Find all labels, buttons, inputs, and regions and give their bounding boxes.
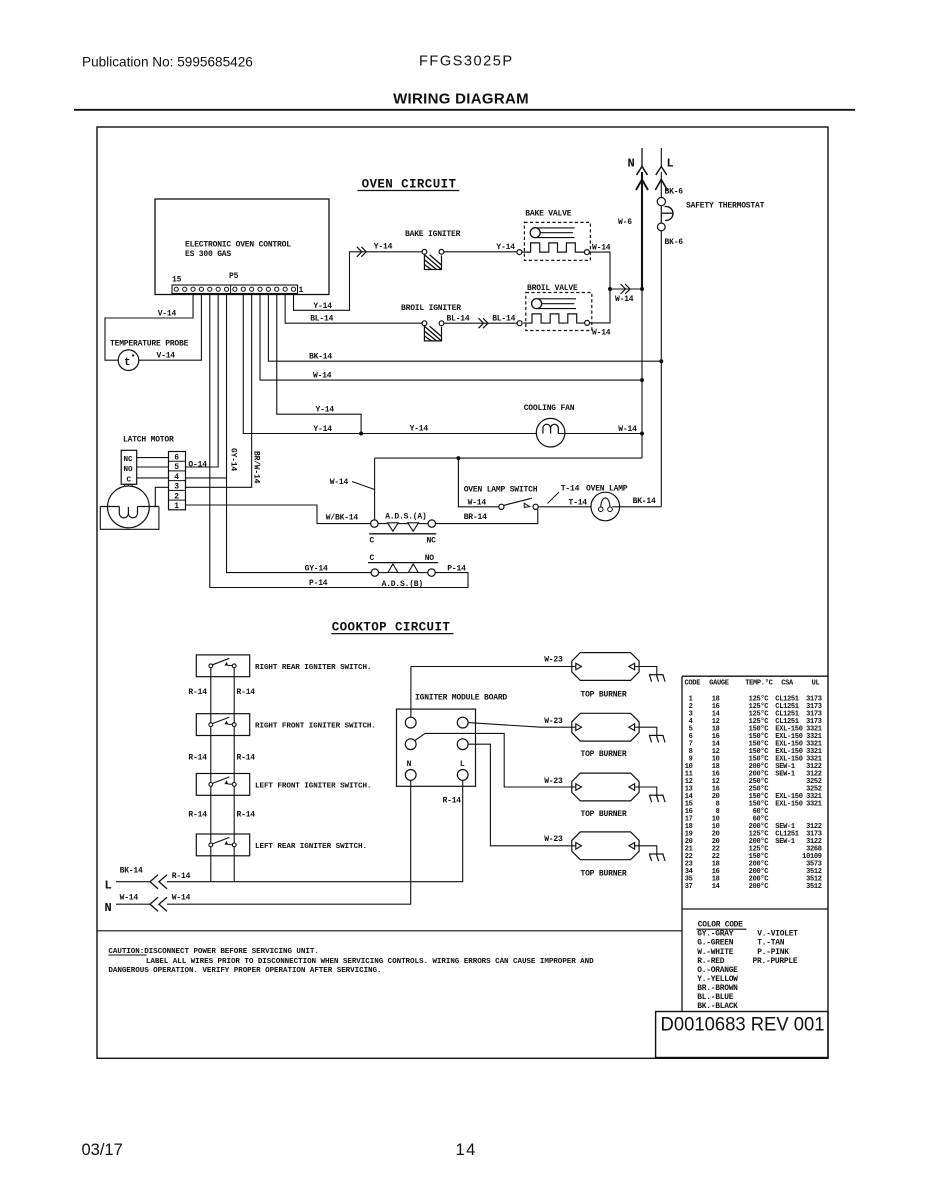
wire R-14 chain left [210,786,212,843]
svg-text:L: L [460,760,465,769]
junction N line fan [640,432,644,436]
svg-text:R-14: R-14 [188,753,207,762]
svg-text:G.-GREEN: G.-GREEN [697,939,733,948]
svg-text:GY-14: GY-14 [305,564,328,573]
svg-text:TEMP.°C: TEMP.°C [745,679,772,688]
svg-text:W-14: W-14 [468,499,487,508]
safety thermostat reset symbol [665,206,673,220]
latch motor stem box [125,484,133,486]
svg-text:BAKE VALVE: BAKE VALVE [525,209,571,218]
switch arm [212,717,229,724]
junction Y-14 [359,432,363,436]
switch pawl link [228,723,233,725]
svg-text:W-14: W-14 [615,295,634,304]
svg-text:W-14: W-14 [592,329,611,338]
junction N line [640,287,644,291]
ADS(B) triangle 1 [388,564,398,572]
switch pawl link [228,664,233,666]
svg-text:FFGS3025P: FFGS3025P [419,54,514,70]
latch motor pin strip [169,452,186,510]
svg-text:GY.-GRAY: GY.-GRAY [697,930,733,939]
connector P5 pin 6 [250,287,254,291]
svg-text:COOLING FAN: COOLING FAN [524,404,575,413]
wire W-14 to N line [610,288,642,290]
broil valve right pin [585,320,590,325]
wire to L supply [233,847,235,882]
switch pawl [225,663,228,665]
switch left contact [209,843,213,847]
svg-text:TOP BURNER: TOP BURNER [580,691,626,700]
pointer T-14 [548,492,560,504]
ADS(A) C contact [371,520,378,527]
switch pawl [225,842,228,844]
wire broil igniter to broil valve [444,322,517,324]
module pin mid-right [457,739,468,750]
wire Y-14 pin7 to cooling fan [243,294,543,434]
wire W-14 supply stub [116,903,150,905]
switch pawl [225,722,228,724]
wire latch pin1 W/BK-14 to ADS(A) [186,505,371,524]
wire to L supply [210,847,212,882]
bake valve left pin [517,250,522,255]
wire R-14 chain left [210,668,212,723]
wire V-14 probe to pin12 [139,294,202,361]
svg-text:COLOR CODE: COLOR CODE [698,921,743,930]
wire V-14 pin13 to temperature probe [105,294,193,361]
wire W-14 module N to supply [167,780,411,904]
junction BK-14 L line [659,359,663,363]
svg-text:ELECTRONIC OVEN CONTROL: ELECTRONIC OVEN CONTROL [185,241,291,250]
wire NO to latch pin5 [137,466,169,468]
svg-text:BL-14: BL-14 [310,315,333,324]
svg-text:R-14: R-14 [237,753,256,762]
broil igniter symbol [422,321,444,341]
revision box [656,1012,828,1058]
svg-text:TOP BURNER: TOP BURNER [580,870,626,879]
svg-text:NC: NC [427,537,437,546]
svg-text:R-14: R-14 [188,810,207,819]
svg-text:LEFT REAR IGNITER SWITCH.: LEFT REAR IGNITER SWITCH. [255,843,367,851]
svg-text:37: 37 [685,883,693,891]
svg-text:BR.-BROWN: BR.-BROWN [697,984,738,993]
electronic oven control box [155,199,329,295]
svg-text:SAFETY THERMOSTAT: SAFETY THERMOSTAT [686,202,765,211]
safety thermostat lower contact [657,223,665,231]
lamp filament foot [608,507,613,512]
connector P5 pin 3 [275,287,279,291]
wire N line W-6 [641,172,643,289]
svg-text:BROIL VALVE: BROIL VALVE [527,284,578,293]
svg-text:T.-TAN: T.-TAN [757,939,784,948]
svg-text:D0010683 REV 001: D0010683 REV 001 [661,1015,825,1036]
svg-text:BROIL IGNITER: BROIL IGNITER [401,304,461,313]
svg-text:P-14: P-14 [447,564,466,573]
svg-text:SEW-1: SEW-1 [775,838,795,846]
wire N line top stub [641,148,643,166]
wire W-14 fan to N line [558,433,642,435]
svg-text:RIGHT FRONT IGNITER SWITCH.: RIGHT FRONT IGNITER SWITCH. [255,723,376,731]
svg-text:t: t [124,357,131,369]
svg-text:BK-14: BK-14 [633,497,656,506]
wire Y-14 pin3 joins Y-14 [277,294,361,434]
svg-text:L: L [105,878,112,892]
ADS(B) wire [379,572,389,574]
svg-text:200°C: 200°C [749,882,769,891]
svg-text:BAKE IGNITER: BAKE IGNITER [405,230,461,239]
ground top burner 4 [639,846,665,861]
svg-text:3512: 3512 [806,883,822,891]
wire module top-left pin riser [410,667,412,718]
svg-text:BK-14: BK-14 [120,867,143,876]
L line break chevron [656,167,667,176]
ADS(A) wire [378,523,387,525]
latch pin divider [169,460,186,462]
module pin L [457,770,468,781]
svg-text:R-14: R-14 [172,872,191,881]
svg-text:C: C [127,476,132,484]
svg-text:P.-PINK: P.-PINK [757,948,789,957]
svg-text:RIGHT REAR IGNITER SWITCH.: RIGHT REAR IGNITER SWITCH. [255,664,371,672]
svg-text:SEW-1: SEW-1 [775,770,795,778]
ADS(A) triangle 2 [408,523,419,531]
latch motor stem [127,484,129,486]
svg-text:03/17: 03/17 [82,1141,123,1159]
broil valve left pin [517,321,522,326]
svg-text:T-14: T-14 [561,485,580,494]
wire bake igniter to bake valve [444,251,517,253]
wire C to latch pin4 [137,477,169,479]
svg-text:W-14: W-14 [313,372,332,381]
switch right contact [232,723,236,727]
module pin N [405,770,416,781]
junction W-14 [608,287,612,291]
svg-text:Y-14: Y-14 [496,243,515,252]
svg-text:W-23: W-23 [544,717,563,726]
caution underline [108,954,146,956]
svg-text:R-14: R-14 [237,810,256,819]
ADS(B) triangle 2 [408,564,418,572]
svg-text:O.-ORANGE: O.-ORANGE [697,966,738,975]
top burner 2 [572,713,639,741]
latch pin divider [169,480,186,482]
svg-text:GY-14: GY-14 [229,448,238,471]
OVEN CIRCUIT underline [357,190,459,192]
svg-text:T-14: T-14 [569,499,588,508]
svg-text:W-14: W-14 [120,894,139,903]
L supply chevrons [150,875,158,889]
connector P5 pin 15 [174,287,178,291]
ground top burner 3 [639,787,665,802]
svg-text:UL: UL [812,680,820,688]
COOKTOP CIRCUIT underline [331,633,453,635]
svg-text:Publication No: 5995685426: Publication No: 5995685426 [82,55,253,70]
switch pawl link [228,783,233,785]
svg-text:DANGEROUS OPERATION. VERIFY PR: DANGEROUS OPERATION. VERIFY PROPER OPERA… [108,967,381,975]
switch left contact [209,783,213,787]
connector P5 pin 2 [283,287,287,291]
wire BR-14 ADS(A) to lamp switch [436,509,538,523]
caution divider [97,930,682,932]
svg-text:EXL-150: EXL-150 [775,800,802,808]
wire L line top stub [660,148,662,166]
switch arm [212,837,229,844]
ground top burner 1 [639,667,665,682]
svg-text:R-14: R-14 [443,797,462,806]
ADS(A) NC contact [428,520,435,527]
switch right contact [232,783,236,787]
svg-text:BL-14: BL-14 [447,315,470,324]
lamp filament foot [598,507,603,512]
switch pawl [225,781,228,783]
svg-text:R.-RED: R.-RED [697,957,724,966]
switch right contact [232,664,236,668]
ADS(B) NO contact [428,569,435,576]
wire L line BK-6 down to oven lamp [660,231,662,507]
switch arm [212,658,229,665]
connector P5 pin 10 [216,287,220,291]
latch pin divider [169,470,186,472]
svg-text:WIRING DIAGRAM: WIRING DIAGRAM [393,91,529,108]
latch motor chord left [100,506,119,508]
svg-text:1: 1 [299,286,304,295]
svg-text:OVEN LAMP SWITCH: OVEN LAMP SWITCH [464,486,538,495]
lamp switch pawl [524,503,529,507]
svg-text:A.D.S.(A): A.D.S.(A) [385,512,426,521]
svg-text:BK-14: BK-14 [309,353,332,362]
oven lamp filament [601,498,610,508]
broil valve symbol [523,293,592,331]
wire bake valve to W-14 junction [589,252,610,289]
svg-text:PR.-PURPLE: PR.-PURPLE [753,957,798,966]
svg-text:6: 6 [174,454,179,463]
svg-text:CSA: CSA [781,680,794,688]
module pin top-right [457,717,468,728]
switch right contact [232,843,236,847]
connector P5 pin 14 [183,287,187,291]
junction W-14 N line [640,378,644,382]
wire R-14 chain right [233,727,235,783]
connector P5 pin 9 [224,287,228,291]
svg-text:W-14: W-14 [330,478,349,487]
svg-text:3: 3 [174,483,179,492]
svg-text:V-14: V-14 [158,309,177,318]
svg-text:N: N [105,901,112,915]
bake valve symbol [522,222,591,260]
switch pawl link [228,844,233,846]
cooling fan motor glyph [543,424,558,433]
svg-text:W-14: W-14 [618,425,637,434]
svg-text:BK-6: BK-6 [665,238,684,247]
temperature probe symbol [118,350,139,371]
module pin mid-left [405,739,416,750]
safety thermostat bar [660,206,662,223]
switch left contact [209,664,213,668]
svg-text:W-23: W-23 [544,655,563,664]
latch pin divider [169,499,186,501]
svg-text:TOP BURNER: TOP BURNER [580,810,626,819]
connector P5 pin 8 [233,287,237,291]
svg-text:Y.-YELLOW: Y.-YELLOW [697,975,738,984]
svg-text:W-14: W-14 [592,243,611,252]
wire N line W-14 section [641,289,643,458]
latch motor loop wire [100,507,159,530]
wire R-14 chain left [210,727,212,783]
main border frame [97,127,828,1058]
wire BK-14 pin4 to L line [268,294,661,362]
junction lamp switch branch [456,456,460,460]
pointer W-14 [352,482,375,490]
svg-text:CODE: CODE [685,680,701,688]
wire BR/W-14 pin6 to latch motor pin3 [185,294,252,488]
wire O-14 pin10 to latch motor pin5 [185,294,218,468]
N supply chevrons [150,897,158,911]
wire W-23 module mid-right to top burner 4 [468,744,572,846]
connector P5 pin 4 [266,287,270,291]
bake valve right pin [584,250,589,255]
wire BL-14 pin2 to broil igniter [285,294,422,324]
svg-text:BR/W-14: BR/W-14 [252,451,261,484]
svg-text:BR-14: BR-14 [464,513,487,522]
wire W-14 N line bottom run [375,457,642,459]
right rear igniter switch box [196,655,249,677]
wire gauge table box [682,675,828,677]
header rule [74,109,855,111]
svg-text:W-6: W-6 [618,218,632,227]
svg-text:W-23: W-23 [544,835,563,844]
oven lamp symbol [591,492,620,521]
N line break chevron [637,167,648,176]
svg-text:IGNITER MODULE BOARD: IGNITER MODULE BOARD [415,693,507,702]
wire BK-14 lamp to L line [612,506,661,508]
svg-text:TEMPERATURE PROBE: TEMPERATURE PROBE [110,339,189,348]
right front igniter switch box [196,714,249,736]
top burner 4 [572,832,639,860]
svg-text:COOKTOP CIRCUIT: COOKTOP CIRCUIT [332,620,451,634]
wire W-23 module to top burner 1 [411,666,572,668]
svg-text:LATCH MOTOR: LATCH MOTOR [123,435,174,444]
ADS(A) base line [369,533,436,535]
svg-text:N: N [407,760,412,769]
svg-text:L: L [667,157,674,171]
svg-text:LEFT FRONT IGNITER SWITCH.: LEFT FRONT IGNITER SWITCH. [255,783,371,791]
svg-text:W/BK-14: W/BK-14 [326,513,359,522]
svg-text:14: 14 [712,883,720,891]
lamp switch right contact [533,504,538,509]
svg-text:BL.-BLUE: BL.-BLUE [697,993,733,1002]
wire R-14 chain right [233,786,235,843]
igniter module board box [397,709,476,786]
svg-text:TOP BURNER: TOP BURNER [580,750,626,759]
svg-text:2: 2 [174,492,179,501]
latch motor NC NO C box [121,450,137,484]
svg-text:ES 300 GAS: ES 300 GAS [185,250,231,259]
svg-text:Y-14: Y-14 [374,243,393,252]
svg-text:4: 4 [174,473,179,482]
wire latch motor pin4 to GY-14 [185,477,227,479]
ADS(A) triangle 1 [388,523,399,531]
wire W-14 pin5 to N line [260,294,642,381]
bake igniter symbol [422,249,444,269]
wire R-14 module L to supply [167,780,463,881]
lamp switch left contact [499,504,504,509]
ADS(B) top line [368,562,438,564]
svg-text:LABEL ALL WIRES PRIOR TO DISCO: LABEL ALL WIRES PRIOR TO DISCONNECTION W… [146,958,594,966]
latch motor winding glyph [119,507,137,518]
svg-text:A.D.S.(B): A.D.S.(B) [382,580,423,589]
switch left contact [209,723,213,727]
wire Y-14 pin1 to bake igniter [294,252,422,310]
svg-text:NO: NO [425,554,435,563]
svg-text:1: 1 [174,502,179,511]
ground top burner 2 [639,727,665,742]
svg-text:Y-14: Y-14 [313,425,332,434]
connector P5 pin 11 [208,287,212,291]
left front igniter switch box [196,774,249,796]
switch arm [212,777,229,784]
svg-text:BK-6: BK-6 [665,187,684,196]
wire NC to latch pin6 [137,457,169,459]
wire R-14 chain right [233,668,235,723]
svg-text:5: 5 [174,463,179,472]
connector P5 pin 1 [291,287,295,291]
L line arrow chevron [655,180,667,191]
svg-text:R-14: R-14 [188,688,207,697]
svg-text:C: C [370,537,375,546]
svg-text:Y-14: Y-14 [313,302,332,311]
svg-text:W.-WHITE: W.-WHITE [697,948,733,957]
lamp switch arm [504,498,532,505]
svg-text:P-14: P-14 [309,579,328,588]
module pin top-left [405,717,416,728]
connector P5 strip [172,285,298,294]
svg-text:W-14: W-14 [172,894,191,903]
svg-text:OVEN CIRCUIT: OVEN CIRCUIT [362,178,457,192]
svg-text:NC: NC [124,456,133,464]
wire BK-14 supply stub [116,881,150,883]
svg-text:V-14: V-14 [157,352,176,361]
svg-text:3321: 3321 [806,800,822,808]
svg-text:GAUGE: GAUGE [709,680,729,688]
svg-text:V.-VIOLET: V.-VIOLET [757,930,798,939]
svg-text:14: 14 [456,1141,477,1159]
ADS(B) C contact [371,569,378,576]
wire L line [660,172,662,198]
svg-text:Y-14: Y-14 [316,405,335,414]
svg-text:N: N [628,157,635,171]
wire to oven lamp switch [458,458,498,507]
wire W-23 module mid-left to top burner 3 [415,733,572,787]
connector P5 pin 12 [199,287,203,291]
safety thermostat upper contact [657,198,665,206]
svg-text:W-23: W-23 [544,777,563,786]
latch pin divider [169,489,186,491]
top burner 3 [572,773,639,801]
wire broil valve to W-14 junction [590,289,610,323]
svg-text:O-14: O-14 [188,460,207,469]
svg-text:Y-14: Y-14 [410,425,429,434]
connector P5 pin 5 [258,287,262,291]
svg-text:P5: P5 [229,272,239,281]
wire T-14 switch to lamp [538,506,598,508]
wire GY-14 pin9 to ADS(B) C [227,294,372,573]
svg-text:BK.-BLACK: BK.-BLACK [697,1002,738,1011]
wire down to ADS(A) C [374,458,376,520]
N line arrow chevron [636,180,648,191]
wire W-23 module to top burner 2 [468,723,572,728]
latch motor chord right [138,506,159,508]
connector P5 pin 13 [191,287,195,291]
latch motor symbol [107,486,149,528]
